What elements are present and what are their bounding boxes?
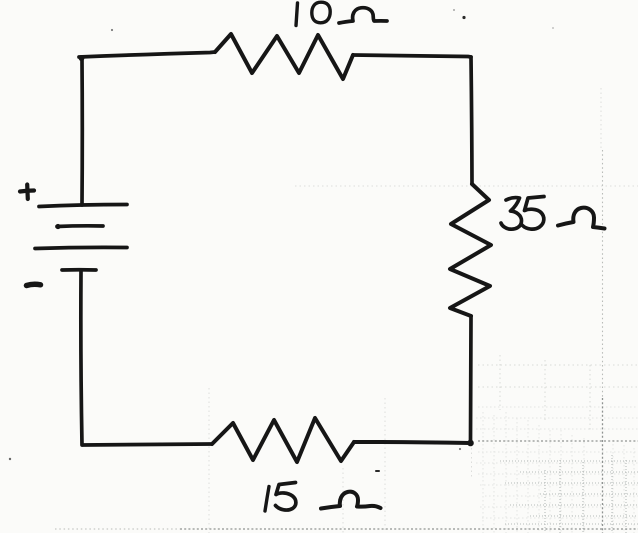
- battery polarity label + (positive terminal): [20, 185, 34, 200]
- label "10" (value of R1): [296, 2, 330, 25]
- wire (left side, bottom-left corner up to battery - terminal): [81, 271, 82, 445]
- faint graph paper grid (decorative): [476, 407, 638, 533]
- label "15" (value of R3): [265, 483, 296, 512]
- wire (right side, R2 down to bottom-right corner): [467, 316, 474, 446]
- wire (bottom side, bottom-right corner to resistor R3): [354, 442, 470, 443]
- wire (battery + terminal up to top-left corner): [79, 55, 85, 205]
- battery B1 (4 plates: long-short-long-short): [35, 205, 127, 271]
- wire (bottom side, R3 to bottom-left corner): [83, 444, 212, 445]
- label "ohm" symbol for R1: [339, 8, 387, 23]
- wire (right side, top-right corner down to resistor R2): [471, 57, 472, 184]
- resistor R1 zigzag (10 ohm, top): [215, 34, 353, 79]
- label "ohm" symbol for R3: [321, 492, 381, 509]
- noisy speckle texture bottom-right (decorative): [500, 455, 638, 533]
- wire (top side, corner to resistor R1): [79, 52, 215, 57]
- ink specks (scan artifacts, decorative): [9, 9, 554, 472]
- label "35" (value of R2): [501, 197, 544, 230]
- resistor R2 zigzag (35 ohm, right): [450, 184, 491, 316]
- battery polarity label - (negative terminal): [27, 284, 41, 285]
- wire (top side, R1 to top-right corner): [353, 55, 471, 57]
- label "ohm" symbol for R2: [558, 208, 605, 229]
- resistor R3 zigzag (15 ohm, bottom): [212, 418, 354, 462]
